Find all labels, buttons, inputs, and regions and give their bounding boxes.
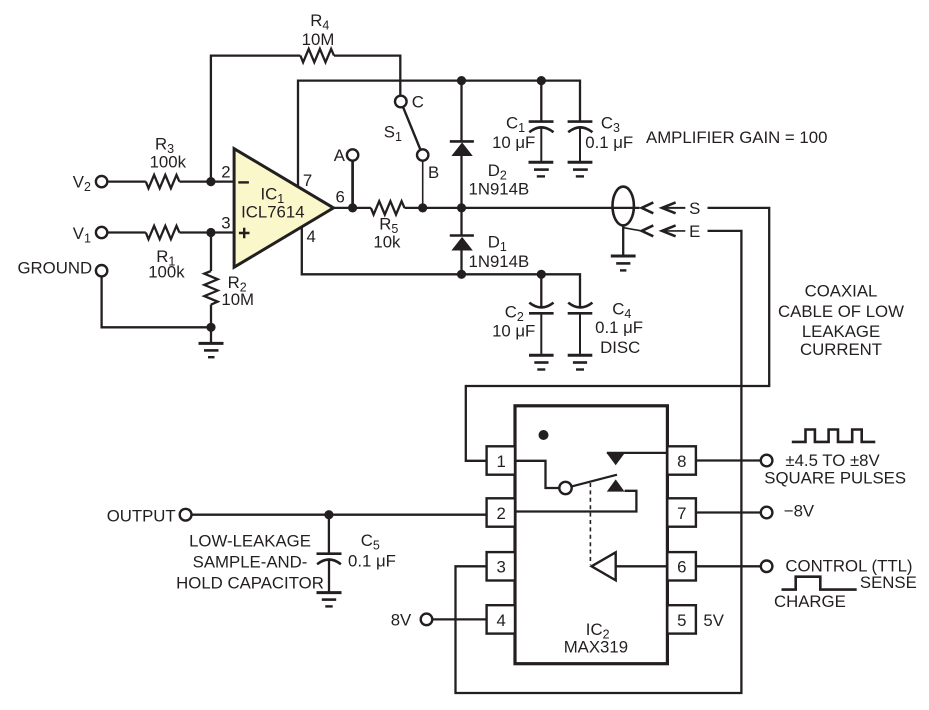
IC2 contact triangle down — [607, 453, 625, 465]
coax connector ellipse — [613, 187, 634, 226]
ground under C4 — [568, 355, 593, 369]
terminal -8V — [761, 507, 773, 519]
chevron arrows S line — [642, 202, 686, 213]
svg-text:5V: 5V — [703, 611, 724, 630]
IC2 pin 8 box — [667, 446, 696, 474]
junction node B — [418, 203, 427, 212]
wire B terminal lead — [422, 161, 424, 208]
wire IC2 pin1 internal to switch pole — [515, 461, 559, 488]
svg-text:4: 4 — [307, 227, 316, 246]
resistor R5 — [371, 201, 405, 214]
svg-text:6: 6 — [677, 558, 686, 577]
svg-text:10k: 10k — [373, 232, 401, 251]
junction node diode mid — [457, 203, 466, 212]
svg-text:V1: V1 — [73, 224, 91, 246]
IC2 pin 4 box — [487, 605, 515, 633]
chevron arrows E line — [642, 225, 686, 236]
svg-text:3: 3 — [221, 214, 230, 233]
wire C2 top lead — [540, 274, 542, 306]
wire S to guard loop into IC2 pin 1 — [466, 208, 769, 461]
IC2 pin1 marker dot — [539, 430, 549, 440]
junction node C1 top rail — [537, 76, 546, 85]
wire V2 to R3 — [107, 180, 146, 182]
wire IC2 pin 6 to control terminal — [695, 565, 761, 567]
IC2 contact triangle up — [607, 479, 625, 491]
svg-text:8: 8 — [677, 452, 686, 471]
svg-text:AMPLIFIER GAIN = 100: AMPLIFIER GAIN = 100 — [646, 128, 827, 147]
junction node C5 — [324, 510, 333, 519]
IC2 buffer triangle — [592, 552, 616, 580]
junction node D2 top rail — [457, 76, 466, 85]
wire R2 bottom to ground node — [210, 305, 212, 328]
diode D1 — [450, 236, 474, 251]
svg-text:10 μF: 10 μF — [492, 322, 535, 341]
svg-text:COAXIAL: COAXIAL — [805, 281, 878, 300]
svg-text:7: 7 — [677, 504, 686, 523]
wire OUTPUT to IC2 pin 2 — [192, 514, 488, 516]
ground under C3 — [568, 162, 593, 176]
op-amp IC1 triangle — [234, 149, 333, 268]
terminal OUTPUT — [180, 509, 192, 521]
IC2 body MAX319 — [515, 406, 667, 664]
svg-text:LEAKAGE: LEAKAGE — [802, 322, 880, 341]
wire D2 top lead — [460, 81, 462, 142]
svg-text:10 μF: 10 μF — [492, 133, 535, 152]
resistor R4 — [300, 49, 334, 62]
svg-text:7: 7 — [303, 171, 312, 190]
svg-text:E: E — [689, 222, 700, 241]
svg-text:D1: D1 — [488, 233, 507, 255]
ground under R2 node — [199, 343, 224, 357]
wire op-amp output to R5 — [334, 207, 371, 209]
dashed control line — [589, 483, 591, 565]
svg-text:±4.5 TO ±8V: ±4.5 TO ±8V — [785, 451, 880, 470]
wire R1 to op-amp pin 3 — [179, 231, 234, 233]
svg-text:2: 2 — [497, 504, 506, 523]
wire buffer to pin6 internal — [616, 565, 668, 567]
wire C5 bottom lead — [328, 560, 330, 592]
svg-text:SAMPLE-AND-: SAMPLE-AND- — [193, 553, 308, 572]
svg-text:2: 2 — [221, 162, 230, 181]
wire switch contact B to pin2 internal — [515, 491, 636, 512]
svg-text:1N914B: 1N914B — [469, 252, 530, 271]
svg-text:10M: 10M — [302, 30, 335, 49]
svg-text:5: 5 — [677, 611, 686, 630]
IC2 pin 5 box — [667, 605, 696, 633]
wire D1 bottom lead — [460, 251, 462, 275]
diode D2 — [450, 141, 474, 156]
svg-text:OUTPUT: OUTPUT — [107, 507, 176, 526]
terminal V1 — [96, 227, 107, 238]
wire coax shield to E chevron — [624, 228, 642, 231]
wire IC2 pin 7 to -8V terminal — [695, 511, 761, 513]
svg-text:SQUARE PULSES: SQUARE PULSES — [764, 469, 906, 488]
svg-text:B: B — [428, 163, 439, 182]
wire D2 bottom lead — [460, 156, 462, 208]
note LOW-LEAKAGE SAMPLE-AND-HOLD CAPACITOR — [176, 532, 324, 593]
IC2 pin 1 box — [487, 446, 515, 474]
svg-text:CURRENT: CURRENT — [800, 340, 882, 359]
wire R5 to diode node and coax — [405, 207, 640, 209]
svg-text:CHARGE: CHARGE — [774, 592, 846, 611]
note COAXIAL CABLE — [778, 281, 904, 359]
resistor R2 vertical — [204, 271, 217, 305]
junction node C2 top — [537, 270, 546, 279]
svg-text:GROUND: GROUND — [18, 259, 93, 278]
IC2 pin 2 box — [487, 498, 515, 526]
terminal square pulses — [761, 455, 773, 467]
svg-text:1N914B: 1N914B — [469, 180, 530, 199]
wire D1 top lead — [460, 208, 462, 236]
svg-text:4: 4 — [497, 611, 506, 630]
svg-text:V2: V2 — [73, 172, 91, 194]
svg-text:SENSE: SENSE — [860, 573, 917, 592]
wire A terminal lead — [351, 161, 354, 208]
wire op-amp pin4 down right to C2 C4 D1 bottoms — [302, 227, 580, 306]
terminal 8V — [421, 614, 433, 626]
capacitor C1 — [529, 122, 554, 161]
junction node pin3 — [206, 228, 215, 237]
svg-text:MAX319: MAX319 — [564, 638, 628, 657]
svg-text:8V: 8V — [391, 611, 412, 630]
terminal GROUND — [96, 265, 107, 276]
wire R4 left vertical from pin2 node up to R4 — [211, 56, 301, 182]
wire E down to bottom loop and up into IC2 pin 3 — [456, 231, 742, 693]
op-amp plus sign — [239, 228, 250, 239]
junction node A — [348, 203, 357, 212]
terminal CONTROL — [761, 561, 773, 573]
svg-text:DISC: DISC — [600, 338, 640, 357]
svg-text:S1: S1 — [384, 122, 402, 144]
terminal V2 — [96, 176, 107, 187]
wire pin3 node down to R2 — [210, 233, 212, 272]
wire pin7 rail to C1 C3 D2 tops — [298, 81, 580, 187]
ground under coax shield — [611, 256, 636, 270]
svg-text:3: 3 — [497, 558, 506, 577]
svg-text:C5: C5 — [361, 531, 380, 553]
svg-text:100k: 100k — [148, 262, 185, 281]
ground under C5 — [317, 593, 342, 607]
ground under C1 — [529, 162, 554, 176]
svg-text:S: S — [689, 199, 700, 218]
wire V1 to R1 — [107, 231, 146, 233]
IC2 switch pole circle — [559, 482, 571, 494]
wire 8V to IC2 pin 4 — [432, 618, 487, 620]
switch S1 arm — [403, 107, 421, 150]
wire coax shield lead to ground — [622, 225, 624, 254]
svg-text:ICL7614: ICL7614 — [241, 202, 304, 221]
svg-text:HOLD CAPACITOR: HOLD CAPACITOR — [176, 574, 324, 593]
svg-text:0.1 μF: 0.1 μF — [585, 133, 633, 152]
svg-text:6: 6 — [336, 188, 345, 207]
svg-text:100k: 100k — [150, 153, 187, 172]
charge sense waveform glyph — [782, 577, 857, 590]
wire ground node stub — [210, 327, 212, 342]
junction node R2 ground — [206, 323, 215, 332]
wire R3 to op-amp pin 2 — [179, 180, 234, 182]
capacitor C5 — [317, 554, 342, 565]
svg-text:LOW-LEAKAGE: LOW-LEAKAGE — [189, 532, 311, 551]
capacitor C4 — [568, 303, 593, 354]
terminal A — [347, 149, 358, 160]
wire IC2 pin 8 to square pulse terminal — [695, 459, 761, 461]
svg-text:−8V: −8V — [784, 502, 815, 521]
ground under C2 — [529, 355, 554, 369]
IC2 pin 3 box — [487, 552, 515, 580]
svg-text:1: 1 — [497, 452, 506, 471]
svg-text:CABLE OF LOW: CABLE OF LOW — [778, 302, 904, 321]
svg-text:10M: 10M — [221, 290, 254, 309]
square pulses waveform glyph — [792, 430, 876, 442]
wire C5 top lead — [328, 515, 330, 554]
wire GROUND terminal down and right to node — [102, 276, 211, 327]
wire C1 top lead — [540, 81, 542, 122]
wire R4 right to switch terminal C — [334, 56, 400, 96]
resistor R3 — [146, 175, 180, 188]
op-amp minus sign — [238, 181, 249, 183]
resistor R1 — [146, 226, 180, 239]
junction node pin2 — [206, 177, 215, 186]
svg-text:C: C — [412, 92, 424, 111]
switch terminal B — [417, 149, 428, 160]
svg-text:A: A — [334, 146, 346, 165]
junction node D1 bottom — [457, 270, 466, 279]
switch arm inside IC2 — [572, 475, 617, 487]
wire IC2 pin8 internal to switch contact — [607, 452, 668, 454]
capacitor C3 — [568, 122, 593, 161]
switch terminal C — [395, 96, 407, 108]
capacitor C2 — [529, 303, 554, 354]
svg-text:0.1 μF: 0.1 μF — [348, 551, 396, 570]
IC2 pin 7 box — [667, 498, 696, 526]
IC2 pin 6 box — [667, 552, 696, 580]
svg-text:0.1 μF: 0.1 μF — [595, 318, 643, 337]
